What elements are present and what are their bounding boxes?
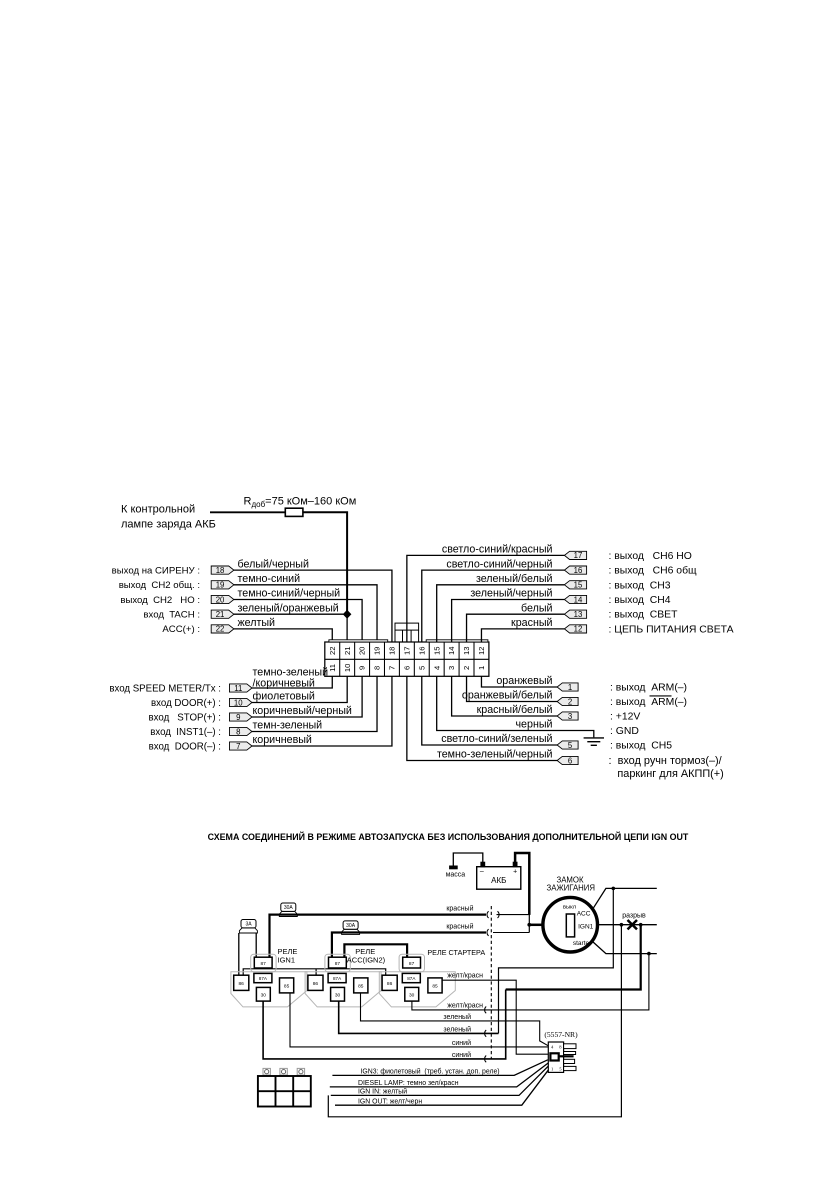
wire fuse 3A right leg to relay IGN1 87 (255, 933, 257, 961)
wire pin 9 (252, 676, 362, 717)
ground symbol (584, 737, 604, 739)
tab pin 17 (564, 551, 586, 559)
relay starter pin boxes (403, 957, 421, 968)
tab pin 22 (211, 625, 234, 633)
svg-text:масса: масса (446, 872, 466, 879)
svg-text:86: 86 (313, 981, 319, 987)
svg-text:светло-синий/красный: светло-синий/красный (442, 544, 553, 556)
svg-text:85: 85 (432, 983, 438, 989)
svg-text:6: 6 (568, 756, 572, 765)
wire pin 21 (234, 613, 347, 615)
svg-text:: вход ручн тормоз(–)/: : вход ручн тормоз(–)/ (609, 755, 723, 767)
svg-text:18: 18 (388, 647, 397, 655)
svg-text:DIESEL LAMP: темно зел/красн: DIESEL LAMP: темно зел/красн (358, 1080, 459, 1087)
svg-text:15: 15 (432, 647, 441, 655)
svg-text:86: 86 (239, 981, 245, 987)
svg-text:13: 13 (462, 647, 471, 655)
svg-text:синий: синий (452, 1039, 471, 1047)
svg-text:11: 11 (234, 684, 242, 693)
svg-text:зеленый: зеленый (443, 1013, 471, 1021)
tab pin 8 (230, 727, 253, 735)
svg-text:красный/белый: красный/белый (477, 704, 553, 716)
svg-text:/коричневый: /коричневый (253, 678, 315, 690)
wire pin 12 (481, 629, 564, 642)
svg-text:18: 18 (216, 566, 225, 575)
svg-text:16: 16 (417, 647, 426, 655)
wire pin 8 (252, 676, 377, 731)
svg-text:IGN OUT: желт/черн: IGN OUT: желт/черн (358, 1098, 422, 1105)
svg-text:ACC(+) :: ACC(+) : (162, 624, 200, 635)
svg-text:17: 17 (574, 551, 583, 560)
wire pin 5 (422, 676, 557, 745)
wire battery minus to chassis (453, 853, 483, 866)
wire after break X to relay IGN1 pin30 (siny) (506, 925, 641, 990)
break mark red wire 2 (487, 929, 489, 936)
break mark siny 2 (485, 1056, 487, 1063)
relay IGN1 outline (251, 954, 276, 972)
junction dot IGN1 left (620, 923, 624, 927)
svg-text:ЗАЖИГАНИЯ: ЗАЖИГАНИЯ (547, 883, 595, 892)
svg-text:вход SPEED METER/Tx :: вход SPEED METER/Tx : (109, 683, 221, 694)
fuse 3A (239, 928, 257, 933)
red wire 2 thick to relay ACC 87 (332, 933, 486, 961)
svg-text:темно-синий: темно-синий (238, 573, 301, 585)
tab pin 19 (211, 581, 234, 589)
tab pin 2 (557, 697, 578, 705)
wire pin 13 (467, 614, 565, 642)
thick stub from bold pin (559, 1055, 574, 1057)
ignition lock (543, 897, 598, 952)
wire lock ACC contact (594, 888, 657, 907)
svg-text:+: + (513, 868, 517, 875)
svg-text:85: 85 (358, 983, 364, 989)
tab pin 3 (557, 712, 578, 720)
svg-text:оранжевый/белый: оранжевый/белый (462, 690, 553, 702)
tab pin 5 (557, 741, 578, 749)
wire pin 15 (437, 585, 565, 642)
svg-text:желт/красн: желт/красн (447, 973, 483, 980)
wire starter to starter relay pin30 (zhelt/krasn) (412, 954, 649, 1010)
svg-text:21: 21 (343, 647, 352, 655)
svg-text:желт/красн: желт/красн (447, 1003, 483, 1010)
svg-text:РЕЛЕ: РЕЛЕ (278, 947, 298, 956)
fuse 30A #2 (342, 929, 360, 934)
svg-text:17: 17 (402, 647, 411, 655)
wire lock IGN1 contact (598, 924, 657, 926)
wire lamp to resistor (210, 511, 285, 513)
junction node on TACH wire (pin 21) (343, 610, 352, 619)
svg-text:14: 14 (447, 647, 456, 655)
wire pin 4 to ground (437, 676, 594, 737)
svg-text:3: 3 (447, 666, 456, 670)
svg-text:: выход CH3: : выход CH3 (609, 580, 671, 591)
svg-text:РЕЛЕ: РЕЛЕ (355, 947, 375, 956)
svg-text:темно-синий/черный: темно-синий/черный (238, 588, 341, 600)
wire pin 3 (452, 676, 557, 716)
svg-text:(5557-NR): (5557-NR) (544, 1030, 578, 1039)
svg-text:выкл: выкл (563, 904, 576, 910)
svg-text:IGN1: IGN1 (578, 924, 594, 931)
svg-text:красный: красный (446, 904, 473, 912)
tab pin 15 (564, 581, 586, 589)
wire pin 1 (481, 676, 557, 687)
svg-text:белый: белый (521, 602, 553, 614)
svg-text:2: 2 (568, 697, 572, 706)
svg-text:4: 4 (432, 666, 441, 670)
svg-text:87A: 87A (407, 976, 416, 981)
svg-text:красный: красный (446, 922, 473, 930)
svg-text:30: 30 (335, 992, 341, 998)
svg-text:К контрольной: К контрольной (121, 504, 195, 516)
svg-text:ACC: ACC (577, 910, 591, 917)
wire pin 2 (467, 676, 558, 701)
tab pin 16 (564, 566, 586, 574)
svg-text:3A: 3A (245, 922, 252, 928)
svg-text:РЕЛЕ СТАРТЕРА: РЕЛЕ СТАРТЕРА (427, 948, 485, 957)
tab pin 18 (211, 566, 234, 574)
svg-text:87A: 87A (259, 976, 268, 981)
svg-text:лампе заряда АКБ: лампе заряда АКБ (121, 518, 216, 530)
break mark zhelt/krasn 2 (485, 1007, 487, 1014)
svg-text:30: 30 (261, 992, 267, 998)
svg-text:21: 21 (216, 610, 225, 619)
tab pin 14 (564, 595, 586, 603)
junction dot ACC (612, 887, 616, 891)
svg-text:30A: 30A (346, 923, 356, 929)
svg-text:: выход CH6 НО: : выход CH6 НО (609, 551, 692, 562)
svg-text:2: 2 (462, 666, 471, 670)
svg-text:вход DOOR(+) :: вход DOOR(+) : (151, 698, 221, 709)
svg-text:87A: 87A (333, 976, 342, 981)
tab pin 6 (557, 756, 578, 764)
svg-text:: ЦЕПЬ ПИТАНИЯ СВЕТА: : ЦЕПЬ ПИТАНИЯ СВЕТА (609, 624, 734, 635)
connector X1 body (325, 642, 489, 676)
tab pin 10 (230, 698, 253, 706)
svg-text:–: – (480, 868, 484, 875)
coil supply bus (243, 969, 386, 979)
svg-text:8: 8 (236, 727, 240, 736)
svg-text:: выход ARM(–): : выход ARM(–) (610, 682, 687, 693)
svg-text:5: 5 (417, 666, 426, 670)
svg-text:синий: синий (452, 1051, 471, 1059)
break mark zeleny 2 (485, 1030, 487, 1037)
connector flange strips (329, 640, 388, 642)
svg-text:фиолетовый: фиолетовый (253, 691, 315, 703)
svg-text:вход DOOR(–) :: вход DOOR(–) : (149, 741, 221, 752)
wire ACC to relay ACC pin30 (zeleny) (499, 888, 614, 1033)
relay IGN1 pin boxes (254, 957, 272, 968)
wire starter relay pin85 zhelt/krasn to connector (442, 980, 550, 1054)
svg-text:зеленый/белый: зеленый/белый (476, 573, 553, 585)
svg-text:СХЕМА СОЕДИНЕНИЙ В РЕЖИМЕ АВТО: СХЕМА СОЕДИНЕНИЙ В РЕЖИМЕ АВТОЗАПУСКА БЕ… (208, 831, 689, 842)
svg-text:белый/черный: белый/черный (238, 558, 309, 570)
svg-text:19: 19 (373, 647, 382, 655)
svg-text:желтый: желтый (238, 617, 276, 629)
break X mark razryv (628, 920, 638, 929)
svg-text:выход CH2 НО :: выход CH2 НО : (120, 595, 200, 606)
tab pin 11 (230, 684, 253, 692)
battery AKB (477, 867, 521, 890)
break marks red wire 1 (498, 911, 500, 918)
svg-text:5: 5 (568, 741, 573, 750)
wire pin 6 (407, 676, 557, 760)
svg-text:ACC(IGN2): ACC(IGN2) (347, 956, 386, 965)
svg-text:светло-синий/зеленый: светло-синий/зеленый (441, 733, 552, 745)
svg-text:7: 7 (388, 666, 397, 670)
svg-text:9: 9 (236, 713, 240, 722)
tab pin 20 (211, 595, 234, 603)
svg-text:12: 12 (477, 647, 486, 655)
svg-text:темно-зеленый/черный: темно-зеленый/черный (437, 749, 553, 761)
svg-text:1: 1 (477, 666, 486, 670)
svg-text:87: 87 (409, 961, 415, 967)
svg-text:зеленый: зеленый (443, 1025, 471, 1033)
svg-text:: выход CH6 общ: : выход CH6 общ (609, 565, 698, 577)
svg-text:6: 6 (402, 666, 411, 670)
svg-text:10: 10 (343, 664, 352, 672)
svg-text:: выход CH5: : выход CH5 (610, 740, 672, 751)
wire pin 20 (234, 600, 362, 643)
svg-text:черный: черный (515, 719, 552, 731)
wire pin 16 (422, 570, 565, 642)
svg-text:IGN IN: желтый: IGN IN: желтый (358, 1088, 407, 1096)
svg-text:выход CH2 общ. :: выход CH2 общ. : (119, 580, 200, 591)
svg-text:86: 86 (387, 981, 393, 987)
connector 5557-NR bold pin (550, 1053, 558, 1060)
wire resistor to TACH node (303, 512, 347, 613)
junction dot IGN1 right (639, 923, 643, 927)
feed continuation to red wires (528, 915, 530, 933)
svg-text:3: 3 (568, 712, 572, 721)
svg-text:starter: starter (573, 940, 592, 947)
wire lock starter contact (593, 942, 657, 954)
svg-text:30: 30 (409, 992, 415, 998)
svg-text:: GND: : GND (610, 726, 639, 737)
svg-text:: выход CH4: : выход CH4 (609, 595, 671, 606)
tab pin 9 (230, 713, 253, 721)
svg-text:паркинг для АКПП(+): паркинг для АКПП(+) (617, 768, 723, 780)
fuse 30A #1 (279, 911, 297, 916)
svg-text:IGN3: фиолетовый (треб. устан: IGN3: фиолетовый (треб. устан. доп. реле… (361, 1067, 500, 1075)
svg-text:: выход ARM(–): : выход ARM(–) (610, 697, 687, 708)
svg-text:8: 8 (373, 666, 382, 670)
red wire 1 thin segment (497, 914, 530, 916)
svg-text:зеленый/черный: зеленый/черный (470, 588, 552, 600)
svg-text:АКБ: АКБ (491, 876, 506, 885)
junction dot lock feed (527, 923, 531, 927)
svg-text:19: 19 (216, 581, 225, 590)
svg-text:: +12V: : +12V (610, 711, 640, 722)
wire pin 18 (234, 570, 392, 642)
svg-text:темн-зеленый: темн-зеленый (253, 720, 323, 732)
6-cell block (258, 1076, 311, 1107)
svg-text:1: 1 (568, 683, 572, 692)
svg-text:вход TACH :: вход TACH : (143, 610, 200, 621)
connector latch (395, 623, 419, 630)
svg-text:красный: красный (511, 617, 552, 629)
wire relay IGN1 pin85 siny to connector (290, 993, 548, 1047)
relay ACC(IGN2) pin boxes (329, 957, 347, 968)
red wire 2 thin segment (493, 932, 529, 934)
relay starter outline (399, 954, 424, 972)
wire battery plus feed (515, 853, 529, 915)
svg-text:: выход СВЕТ: : выход СВЕТ (609, 610, 679, 621)
svg-text:IGN1: IGN1 (278, 956, 296, 965)
wire pin 17 (407, 555, 565, 642)
wire pin 19 (234, 585, 377, 642)
relay ACC(IGN2) outline (325, 954, 350, 972)
svg-text:87: 87 (261, 961, 267, 967)
svg-text:13: 13 (574, 610, 583, 619)
wire relay ACC pin85 zeleny to connector (361, 993, 549, 1046)
tab pin 12 (564, 625, 586, 633)
svg-text:16: 16 (574, 566, 583, 575)
svg-text:15: 15 (574, 581, 583, 590)
chassis ground massa (450, 866, 458, 869)
svg-text:светло-синий/черный: светло-синий/черный (446, 558, 552, 570)
svg-text:87: 87 (335, 961, 341, 967)
wire pin 10 (252, 676, 347, 702)
wire pin 7 (252, 676, 392, 746)
svg-text:14: 14 (574, 595, 583, 604)
svg-text:оранжевый: оранжевый (496, 675, 552, 687)
svg-text:коричневый/черный: коричневый/черный (253, 705, 352, 717)
svg-text:30A: 30A (284, 905, 294, 911)
svg-text:вход INST1(–) :: вход INST1(–) : (150, 727, 221, 738)
svg-text:вход STOP(+) :: вход STOP(+) : (149, 712, 221, 723)
overline on ARM pin 2 (650, 695, 672, 697)
svg-text:9: 9 (358, 666, 367, 670)
svg-text:85: 85 (284, 983, 290, 989)
svg-text:12: 12 (574, 625, 583, 634)
tab pin 13 (564, 610, 586, 618)
red wire 1 thick to relay IGN1 87 (270, 915, 487, 961)
svg-text:20: 20 (358, 647, 367, 655)
terminal squares above block (263, 1068, 270, 1075)
svg-text:20: 20 (216, 595, 225, 604)
svg-text:коричневый: коричневый (253, 734, 312, 746)
wire pin 11 (252, 676, 332, 688)
svg-text:22: 22 (216, 625, 225, 634)
tab pin 21 (211, 610, 234, 618)
wire pin 22 (234, 629, 332, 642)
firewall dashed line (490, 906, 492, 1059)
svg-text:7: 7 (236, 742, 240, 751)
svg-text:10: 10 (234, 698, 243, 707)
svg-text:22: 22 (328, 647, 337, 655)
svg-text:11: 11 (328, 664, 337, 672)
wire pin 14 (452, 600, 565, 643)
resistor Rdob (285, 508, 303, 516)
tab pin 1 (557, 683, 578, 691)
wire IGN1 to IGN IN line (328, 925, 621, 1117)
svg-text:выход на СИРЕНУ :: выход на СИРЕНУ : (112, 565, 200, 576)
svg-text:разрыв: разрыв (622, 913, 646, 920)
wire fuse 3A left leg to relay IGN1 86 (238, 933, 240, 979)
tab pin 7 (230, 742, 253, 750)
svg-text:зеленый/оранжевый: зеленый/оранжевый (238, 602, 339, 614)
junction dot starter (647, 952, 651, 956)
thick bus relay ACC 87 to starter relay 87 (344, 944, 407, 960)
wire feed to ignition lock (529, 924, 542, 927)
